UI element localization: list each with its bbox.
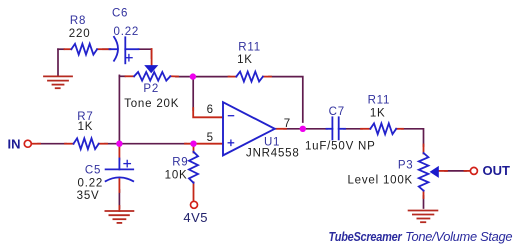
svg-text:TubeScreamer: TubeScreamer: [329, 229, 403, 244]
svg-text:1uF/50V NP: 1uF/50V NP: [305, 140, 376, 152]
svg-text:0.22: 0.22: [114, 26, 140, 38]
svg-text:0.22: 0.22: [78, 178, 104, 190]
svg-text:220: 220: [69, 28, 91, 40]
svg-text:P2: P2: [143, 83, 159, 95]
svg-text:R9: R9: [172, 157, 188, 169]
svg-text:4V5: 4V5: [183, 210, 208, 225]
svg-text:5: 5: [207, 132, 213, 144]
svg-text:1K: 1K: [237, 54, 253, 66]
svg-text:6: 6: [207, 104, 213, 116]
svg-text:Level 100K: Level 100K: [347, 175, 413, 187]
svg-text:P3: P3: [398, 160, 414, 172]
svg-text:R11: R11: [238, 42, 261, 54]
svg-text:Tone/Volume Stage: Tone/Volume Stage: [405, 229, 512, 244]
svg-text:OUT: OUT: [483, 163, 511, 178]
svg-text:IN: IN: [8, 137, 21, 152]
svg-text:C6: C6: [112, 7, 128, 19]
svg-text:C5: C5: [85, 165, 101, 177]
svg-text:R8: R8: [70, 15, 86, 27]
svg-text:35V: 35V: [77, 190, 100, 202]
svg-text:1K: 1K: [370, 107, 386, 119]
svg-text:R11: R11: [368, 94, 391, 106]
svg-text:1K: 1K: [78, 121, 94, 133]
svg-text:JNR4558: JNR4558: [246, 147, 300, 159]
svg-text:10K: 10K: [165, 170, 188, 182]
svg-text:7: 7: [284, 118, 290, 130]
svg-text:Tone 20K: Tone 20K: [124, 98, 179, 110]
svg-text:C7: C7: [329, 106, 345, 118]
